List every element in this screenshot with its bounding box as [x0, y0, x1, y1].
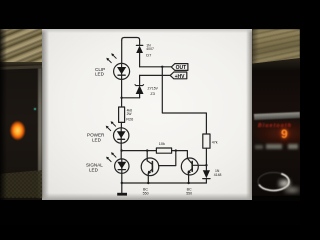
left wood table strip	[0, 29, 42, 67]
POWER LED emission arrows	[106, 121, 116, 130]
wire CLIP LED cathode down to node A	[121, 79, 123, 107]
svg-text:D7: D7	[146, 53, 152, 58]
left panel top slanted highlight	[0, 65, 42, 69]
net tag OUT	[171, 64, 188, 72]
wire D7 to OUT tag	[140, 66, 172, 68]
diode D7 branch vertical	[139, 40, 141, 45]
left wood dark edge	[0, 62, 42, 68]
junction node A (LED chain / zener return)	[120, 97, 122, 99]
label 1N4007 D7	[146, 43, 154, 57]
wire Q1 base L-link	[159, 151, 176, 166]
top black bar	[0, 0, 300, 29]
right wood table strip	[252, 29, 300, 78]
svg-text:2W: 2W	[127, 112, 133, 116]
wire SIGNAL LED to ground rail	[121, 173, 123, 183]
net tag +HV	[170, 72, 187, 80]
svg-text:LED: LED	[92, 137, 102, 142]
paper (schematic sheet)	[42, 29, 252, 200]
wire POWER LED to SIGNAL LED	[120, 143, 122, 159]
label POWER LED	[87, 133, 105, 143]
resistor R26	[119, 107, 125, 122]
svg-text:47k: 47k	[212, 141, 218, 145]
junction OUT node	[161, 66, 163, 68]
label 10k	[159, 142, 165, 146]
diode 1N4148	[203, 170, 210, 183]
green dots under display	[266, 144, 282, 149]
wire R26 to POWER LED	[120, 122, 122, 127]
LED SIGNAL LED	[115, 159, 129, 173]
junction rail left	[121, 182, 123, 184]
svg-text:4148: 4148	[214, 173, 222, 177]
svg-text:Z3: Z3	[150, 92, 154, 96]
left edge vignette	[0, 29, 7, 200]
wire 47k to diode junction	[205, 148, 207, 170]
wire node B to 10k	[122, 150, 157, 152]
small cyan dot	[34, 108, 36, 110]
wire zener top to +HV tag	[140, 74, 171, 76]
bright arc (lens) bottom right	[252, 168, 302, 198]
paper bottom edge shadow	[42, 193, 252, 200]
wire OUT node down and over to 47k	[162, 67, 206, 134]
orange digit 9	[281, 127, 293, 141]
SIGNAL LED emission arrows	[106, 152, 116, 161]
junction Q1 emitter on rail	[147, 182, 149, 184]
svg-text:LED: LED	[95, 72, 105, 77]
svg-text:LED: LED	[89, 168, 99, 173]
junction node B (base feed)	[120, 149, 122, 151]
display red glow	[253, 119, 300, 149]
svg-text:550: 550	[186, 192, 192, 196]
right dark device	[252, 70, 300, 196]
right device top grey band	[254, 112, 300, 120]
wire top loop (CLIP LED anode to D7 cathode)	[122, 38, 140, 41]
svg-text:ZY15V: ZY15V	[148, 86, 159, 90]
label Q2 BC550	[186, 188, 192, 196]
resistor 47k	[203, 134, 210, 148]
wire CLIP LED branch vertical	[121, 40, 123, 63]
label R26 values	[126, 108, 133, 121]
transistor Q2 (BC550)	[181, 158, 206, 183]
bottom black bar	[0, 200, 300, 225]
ground	[117, 183, 127, 196]
resistor 10k	[156, 148, 171, 153]
junction Q1 base node	[175, 149, 177, 151]
CLIP LED emission arrows	[106, 53, 116, 62]
left speaker grille fabric	[0, 170, 42, 198]
junction Q2 collector node	[205, 164, 207, 166]
wire zener bottom to node A	[122, 97, 140, 99]
paper top edge shadow	[42, 29, 252, 33]
label CLIP LED	[95, 67, 105, 77]
junction Q1 collector node	[146, 149, 148, 151]
svg-text:+HV: +HV	[175, 74, 186, 80]
svg-text:4007: 4007	[146, 47, 154, 51]
paper left edge shadow	[42, 29, 49, 200]
right table dark edge	[252, 58, 300, 72]
transistor Q1 (BC550)	[141, 151, 159, 183]
svg-text:550: 550	[143, 192, 149, 196]
label SIGNAL LED	[86, 163, 103, 173]
wire 10k to Q2 top	[172, 151, 188, 159]
LED POWER LED	[114, 128, 129, 143]
desk edge light strip	[38, 68, 42, 198]
junction Q2 emitter on rail	[187, 182, 189, 184]
label 1N4148	[214, 169, 222, 177]
ground rail wire	[122, 182, 207, 184]
orange indicator lamp	[9, 119, 27, 143]
diode D7	[136, 45, 143, 66]
svg-text:10k: 10k	[159, 142, 165, 146]
label 47k	[212, 141, 218, 145]
LED CLIP LED	[114, 63, 130, 79]
label ZY15V Z3	[148, 86, 159, 95]
label Q1 BC550	[143, 188, 149, 196]
bottom-right earlier black start	[252, 195, 300, 201]
red display text	[258, 123, 300, 130]
paper right edge shadow	[246, 29, 252, 200]
left dark device panel	[0, 67, 42, 200]
svg-text:R26: R26	[126, 117, 133, 121]
svg-text:OUT: OUT	[176, 65, 187, 71]
zener Z3	[135, 75, 144, 97]
